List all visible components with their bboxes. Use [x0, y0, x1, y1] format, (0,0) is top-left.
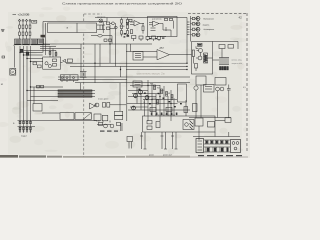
drop x50: [49, 47, 51, 58]
aux box X6: [208, 122, 215, 128]
motor M1: [10, 69, 16, 76]
branch wire y58: [27, 58, 43, 60]
vertical wire x160: [159, 85, 161, 121]
main bus wire C: [26, 46, 28, 121]
resistor R14: [107, 103, 110, 108]
bus junction dots: [19, 52, 31, 91]
paper background: [0, 0, 250, 158]
rail y77: [58, 76, 190, 78]
transistor VT12: [194, 86, 198, 118]
vertical wire x137: [136, 87, 138, 104]
resistor stack R2: [127, 18, 129, 37]
relay K4 coil: [204, 53, 208, 63]
amp unit box U1: [148, 17, 178, 37]
box VD5 cluster: [133, 81, 142, 87]
transistor VT13: [216, 87, 220, 117]
svg-text:2лн08: 2лн08: [120, 26, 125, 28]
fuse F7: [55, 53, 57, 56]
svg-text:блокировка: блокировка: [204, 29, 216, 31]
transistor VT10: [145, 96, 149, 100]
contactor K4 block: [38, 39, 44, 44]
svg-text:М: М: [12, 70, 14, 74]
svg-text:42: 42: [239, 15, 243, 19]
rail y82.7: [75, 82, 190, 84]
flat box A7: [75, 113, 91, 120]
rail y90: [128, 90, 148, 92]
box A11 left: [33, 104, 60, 114]
svg-text:2т: 2т: [163, 90, 165, 92]
resistor R7: [139, 36, 143, 39]
feed wire to transistors: [191, 16, 193, 42]
rail y63: [66, 62, 187, 64]
wire into DA3: [126, 44, 157, 57]
box pair A10: [115, 111, 123, 119]
right drop wire: [186, 18, 188, 64]
lead dash: [13, 13, 17, 15]
resistor R23: [126, 22, 128, 24]
margin mark mid: [2, 56, 5, 58]
svg-text:подкл: подкл: [21, 136, 28, 138]
svg-text:блок реле включения: блок реле включения: [155, 114, 175, 116]
contact S4 with box: [127, 137, 133, 149]
wire DA3 output: [170, 54, 192, 56]
diode VD3: [61, 59, 68, 62]
drop wire x115: [115, 23, 117, 66]
main bus wire D: [30, 46, 32, 121]
resistor R12 vertical: [192, 50, 194, 57]
terminal strip row2: [204, 147, 230, 152]
box A4 below comb: [215, 78, 226, 86]
contactor K1 block: [15, 39, 22, 44]
contact group S1: [140, 132, 147, 149]
box A9: [102, 115, 108, 120]
resistor R9: [152, 36, 156, 39]
transistor VT3: [192, 27, 200, 31]
contactor K2 block: [23, 39, 30, 44]
wire bus under contactors: [14, 45, 50, 46]
drop x56: [55, 51, 57, 58]
branch y50.5: [24, 50, 57, 52]
value marks under R2: [124, 33, 130, 38]
transistor VT1: [192, 17, 200, 21]
rectifier VD1: [107, 22, 115, 25]
bottom control box A14: [143, 116, 216, 132]
comb dark row: [220, 67, 229, 70]
cross wire y107: [130, 106, 148, 108]
ground mark left margin: [1, 30, 5, 32]
transistor VT11: [132, 106, 136, 110]
rail y79.5: [58, 79, 127, 81]
vertical wire x148: [147, 80, 149, 121]
transistor VT5: [197, 49, 203, 53]
resistor R21: [166, 107, 172, 111]
rail y117.5: [189, 117, 231, 119]
input pin X4: [29, 19, 31, 39]
svg-text:включ. общ: включ. общ: [232, 60, 243, 62]
contact group S2: [161, 132, 168, 149]
resistor R18: [171, 95, 173, 100]
cable bar 2: [58, 93, 92, 95]
resistor R3: [129, 19, 132, 21]
relay K5 box: [204, 85, 215, 93]
connector comb XP1: [219, 58, 229, 65]
svg-text:Схема принципиальная электриче: Схема принципиальная электрическая соеди…: [62, 2, 182, 6]
drop wire x110: [109, 25, 111, 63]
branch wire y87: [31, 86, 64, 88]
scan noise band center: [63, 156, 190, 158]
transformer winding T2: [97, 25, 105, 30]
bottom-left terminal block XT1: [18, 121, 36, 134]
svg-text:Включение: Включение: [204, 19, 215, 21]
connector box X5: [195, 118, 203, 140]
wire right of T1: [95, 18, 107, 22]
op-amp DA2: [149, 21, 163, 27]
main vertical wire x127: [126, 44, 128, 121]
branch wire to PSU 2: [24, 54, 43, 56]
wire y120.5: [35, 120, 97, 122]
drop wire x80: [79, 83, 81, 90]
vertical wire x174: [173, 100, 175, 116]
svg-text:усилитель: усилитель: [152, 18, 162, 20]
drop wire x100: [99, 44, 101, 66]
rail junctions: [186, 63, 187, 71]
cross wire y96: [128, 96, 156, 98]
parts under HL2: [104, 39, 112, 41]
input pin X1: [18, 19, 20, 39]
cable bar 3: [58, 96, 92, 98]
drop x53: [52, 49, 54, 58]
resistor R15: [154, 85, 156, 90]
resistor R22: [184, 107, 188, 113]
wire y44 long: [43, 43, 152, 45]
cross wire y99: [143, 99, 177, 101]
resistor R20: [150, 107, 156, 111]
transistor VT7: [94, 103, 99, 107]
cable bar 1: [58, 90, 92, 92]
outlined box on strip: [196, 139, 204, 153]
section divider dashed: [83, 14, 85, 157]
fuse F5 dark: [20, 49, 23, 52]
diode VD2: [195, 64, 198, 72]
scan noise band left: [0, 155, 62, 158]
input pin X2: [22, 19, 24, 39]
svg-text:защита общ: защита общ: [232, 63, 243, 65]
wire A14 to right: [215, 119, 225, 121]
lamp HL2: [91, 34, 112, 44]
input pin X3: [25, 19, 27, 39]
strip labels under: [198, 155, 242, 156]
resistor R19: [157, 100, 159, 105]
resistor R5 vertical: [131, 30, 133, 34]
junction dot a: [94, 43, 121, 70]
vertical wire x171: [170, 90, 172, 121]
resistor R8: [146, 36, 149, 39]
vertical wire x152: [151, 83, 153, 116]
contactor K3 block: [31, 39, 38, 44]
cable bar ends: [92, 91, 95, 97]
vertical wire x164: [163, 86, 165, 116]
wire y48.5 to x81: [56, 48, 81, 50]
svg-text:плата реле: плата реле: [98, 99, 109, 101]
resistor R13: [103, 103, 106, 108]
wire top rail over T1: [43, 22, 95, 56]
resistor R17: [166, 92, 168, 97]
vertical wire x156: [155, 94, 157, 116]
rail y110: [128, 109, 190, 111]
box A15: [225, 118, 231, 123]
diode VD7: [107, 26, 118, 30]
op-amp DA3: [157, 47, 170, 60]
resistor stack R1: [121, 18, 123, 37]
transistor VT2: [192, 22, 200, 26]
wire cluster to rail: [110, 104, 126, 106]
driver triangle D1: [90, 103, 96, 109]
svg-text:усилитель мощн. 2а: усилитель мощн. 2а: [137, 72, 165, 76]
emitter arrows: [134, 94, 147, 101]
strip dark cells: [206, 141, 229, 152]
filter box Z1: [32, 21, 37, 24]
tall module box A12: [178, 84, 187, 102]
drop wire x95: [94, 44, 96, 83]
cluster sublabels: [100, 131, 118, 132]
svg-text:защита: защита: [203, 25, 211, 27]
diode pair VD6: [33, 62, 41, 68]
vertical wire x141: [140, 94, 142, 110]
wires inside U1: [160, 24, 171, 37]
main bus wire A: [19, 46, 21, 121]
transistor VT4: [192, 33, 200, 37]
transistor VT6: [196, 56, 202, 60]
flat box A6: [60, 113, 74, 120]
drop wire x120: [120, 66, 122, 77]
vertical wire x168: [167, 96, 169, 116]
svg-text:м: м: [1, 82, 3, 86]
transistor VT8: [139, 90, 143, 94]
module wires: [193, 46, 222, 63]
svg-text:R19: R19: [153, 98, 156, 100]
resistor R4 vertical: [142, 23, 144, 33]
contactor stubs: [16, 43, 36, 46]
pin comb on wire: [187, 22, 190, 35]
wire module to comb: [213, 59, 220, 61]
svg-text:24В: 24В: [96, 121, 100, 123]
branch wire y90.5: [27, 90, 58, 92]
flat box A5: [60, 75, 78, 82]
box A3 below module: [196, 76, 206, 118]
PSU box A1: [43, 57, 61, 69]
relay K6 in A14: [183, 120, 194, 130]
stub wires y46: [40, 47, 56, 49]
svg-text:+2x200В: +2x200В: [18, 13, 30, 17]
strip top wires: [193, 132, 240, 137]
main bus wire B: [23, 46, 25, 121]
rail y103.5: [127, 103, 178, 105]
solder blobs: [139, 89, 182, 108]
lamp HL1: [99, 19, 103, 33]
transistor VT14: [220, 87, 224, 91]
comparator input box U2: [133, 52, 143, 61]
relay box on strip right: [231, 140, 241, 153]
terminal strip XT2: [204, 140, 230, 144]
relay VT cluster bottom-left-center: [97, 121, 122, 132]
resistor R16: [161, 89, 163, 94]
vertical wire x81: [80, 44, 82, 72]
drop wire x34: [33, 87, 35, 104]
connector dark below T1: [41, 35, 46, 38]
relay module box A2: [192, 42, 239, 75]
vertical wire x186: [185, 100, 187, 116]
parts in A14: [147, 121, 160, 130]
svg-text:08: 08: [168, 93, 170, 95]
branch wire to PSU: [20, 52, 43, 54]
capacitor C1: [227, 85, 231, 118]
resistor R11 in A2: [198, 43, 203, 46]
svg-text:R15: R15: [150, 84, 153, 86]
transistor VT9: [134, 94, 138, 98]
op-amp DA1: [130, 21, 144, 27]
fuse F6: [49, 52, 51, 55]
branch wire y100: [27, 100, 58, 102]
rail y69: [126, 69, 187, 71]
scan noise band right: [190, 156, 248, 158]
frame dashed right border: [246, 13, 248, 153]
cross wire y85: [130, 85, 160, 87]
transformer unit box T1: [48, 23, 97, 33]
junction dots cluster: [147, 85, 171, 104]
wire to motor: [14, 46, 16, 68]
rail y66: [70, 65, 187, 67]
drop wire x120b: [119, 83, 121, 112]
rectifier box VD4: [68, 59, 73, 62]
rail y93: [132, 93, 160, 95]
module dark parts: [198, 44, 207, 62]
box A8: [94, 114, 101, 121]
branch wire y61: [31, 61, 43, 63]
frame dashed top border: [188, 13, 246, 15]
branch wire y96: [31, 96, 59, 98]
connector comb XP2: [80, 72, 87, 78]
box A13: [193, 104, 198, 112]
top rail wire: [95, 17, 187, 19]
resistor R10: [157, 36, 160, 39]
relay contacts KM1: [37, 85, 44, 88]
resistor R6: [132, 36, 136, 39]
fuse F8 dark: [26, 52, 29, 55]
contact group S3: [171, 132, 178, 149]
vertical wire x144: [144, 100, 146, 117]
pin row dark marks: [151, 113, 178, 116]
